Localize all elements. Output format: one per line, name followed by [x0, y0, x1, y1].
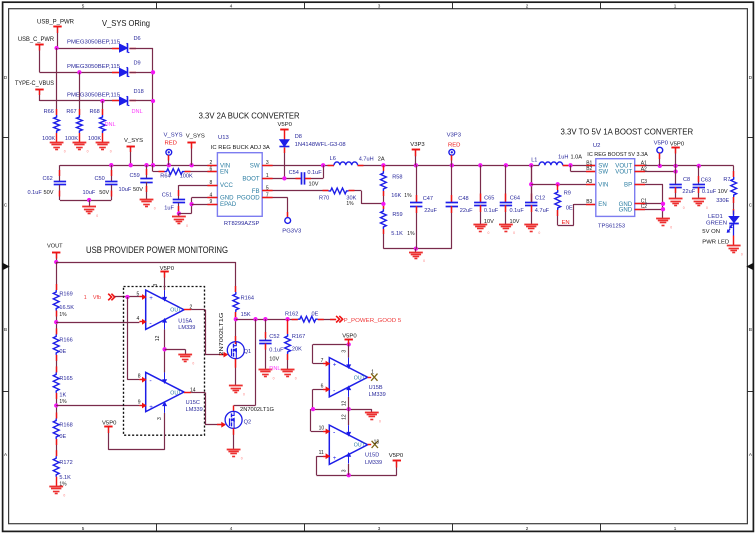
svg-text:0E: 0E: [312, 312, 319, 318]
svg-text:U13: U13: [218, 135, 230, 141]
svg-text:+: +: [149, 404, 153, 411]
svg-text:0: 0: [87, 150, 89, 154]
svg-text:R58: R58: [392, 175, 402, 181]
svg-text:6: 6: [210, 166, 213, 172]
svg-text:PMEG3050BEP,115: PMEG3050BEP,115: [67, 64, 120, 70]
svg-text:12: 12: [341, 401, 347, 407]
svg-text:10V: 10V: [484, 219, 494, 225]
svg-text:R167: R167: [292, 334, 305, 340]
svg-text:R165: R165: [59, 376, 72, 382]
svg-text:LM339: LM339: [186, 407, 203, 413]
svg-text:5: 5: [82, 526, 85, 531]
svg-text:V_SYS: V_SYS: [186, 134, 205, 140]
svg-text:R166: R166: [59, 337, 72, 343]
svg-text:4.7uF: 4.7uF: [535, 208, 550, 214]
svg-text:OUT: OUT: [170, 391, 182, 397]
svg-text:4: 4: [230, 526, 233, 531]
svg-text:DNL: DNL: [132, 109, 143, 115]
svg-text:22uF: 22uF: [424, 208, 437, 214]
svg-text:0.1uF: 0.1uF: [28, 190, 43, 196]
svg-text:0: 0: [741, 253, 743, 257]
svg-text:0: 0: [295, 377, 297, 381]
svg-text:C12: C12: [535, 196, 545, 202]
svg-text:V_SYS: V_SYS: [124, 138, 143, 144]
svg-text:2A: 2A: [378, 157, 385, 163]
svg-text:330E: 330E: [716, 198, 729, 204]
svg-text:+: +: [149, 295, 153, 302]
svg-text:R7: R7: [723, 177, 730, 183]
svg-text:50V: 50V: [99, 190, 109, 196]
svg-text:LED1: LED1: [708, 214, 723, 220]
svg-text:L6: L6: [330, 156, 336, 162]
svg-text:C52: C52: [269, 334, 279, 340]
svg-text:R9: R9: [564, 190, 571, 196]
svg-text:22uF: 22uF: [682, 189, 695, 195]
svg-text:10V: 10V: [269, 357, 279, 363]
svg-text:5.1K: 5.1K: [59, 475, 71, 481]
svg-text:IC REG BOOST 5V 3.3A: IC REG BOOST 5V 3.3A: [587, 152, 648, 158]
svg-text:50V: 50V: [133, 187, 143, 193]
svg-text:EN: EN: [220, 169, 228, 176]
svg-text:R169: R169: [59, 292, 72, 298]
svg-text:4: 4: [137, 316, 140, 322]
svg-text:C50: C50: [95, 176, 105, 182]
svg-text:2: 2: [526, 4, 529, 9]
svg-text:B3: B3: [586, 199, 592, 205]
svg-text:C65: C65: [484, 196, 494, 202]
svg-text:0: 0: [683, 206, 685, 210]
svg-text:12: 12: [155, 335, 161, 341]
svg-text:3: 3: [153, 284, 159, 287]
svg-text:SW: SW: [598, 169, 608, 176]
svg-text:C59: C59: [130, 173, 140, 179]
svg-text:1N4148WFL-G3-08: 1N4148WFL-G3-08: [295, 142, 346, 148]
svg-text:LM339: LM339: [178, 325, 195, 331]
svg-text:1: 1: [674, 526, 677, 531]
svg-text:DNL: DNL: [105, 122, 116, 128]
svg-text:0: 0: [186, 224, 188, 228]
svg-text:+: +: [333, 455, 337, 462]
svg-text:1: 1: [674, 4, 677, 9]
svg-text:1: 1: [84, 295, 87, 301]
svg-text:0: 0: [379, 419, 381, 423]
svg-text:LM339: LM339: [369, 392, 386, 398]
svg-text:V_SYS: V_SYS: [164, 133, 183, 139]
svg-text:RT8299AZSP: RT8299AZSP: [224, 221, 260, 227]
svg-text:BP: BP: [624, 182, 632, 189]
svg-text:5V ON: 5V ON: [702, 229, 720, 235]
svg-text:1%: 1%: [407, 231, 415, 237]
svg-text:V5P0: V5P0: [278, 122, 293, 128]
svg-text:1%: 1%: [346, 201, 354, 207]
svg-text:16K: 16K: [391, 193, 401, 199]
svg-text:C51: C51: [162, 193, 172, 199]
svg-text:0: 0: [273, 377, 275, 381]
svg-text:0: 0: [154, 207, 156, 211]
svg-text:10V: 10V: [718, 189, 728, 195]
svg-text:2: 2: [210, 160, 213, 166]
svg-text:R168: R168: [59, 422, 72, 428]
svg-text:D18: D18: [134, 89, 144, 95]
svg-text:1%: 1%: [59, 481, 67, 487]
svg-text:22uF: 22uF: [460, 208, 473, 214]
svg-text:B: B: [4, 327, 7, 332]
svg-text:6: 6: [321, 384, 324, 390]
svg-text:A3: A3: [586, 179, 592, 185]
svg-text:50V: 50V: [44, 190, 54, 196]
svg-text:100K: 100K: [180, 174, 193, 180]
svg-text:5: 5: [137, 292, 140, 298]
svg-text:USB_P_PWR: USB_P_PWR: [37, 19, 74, 26]
svg-text:PMEG3050BEP,115: PMEG3050BEP,115: [67, 40, 120, 46]
svg-text:EPAD: EPAD: [220, 201, 237, 208]
svg-text:V5P0: V5P0: [654, 140, 669, 146]
svg-text:10V: 10V: [309, 182, 319, 188]
svg-text:0: 0: [64, 150, 66, 154]
svg-text:13: 13: [374, 440, 380, 446]
svg-text:D8: D8: [295, 134, 302, 140]
svg-text:R68: R68: [90, 109, 100, 115]
svg-text:2N7002LT1G: 2N7002LT1G: [240, 407, 274, 413]
svg-text:C47: C47: [423, 196, 433, 202]
svg-text:0: 0: [670, 225, 672, 229]
svg-text:U15D: U15D: [365, 453, 379, 459]
svg-text:VOUT: VOUT: [615, 169, 632, 176]
svg-text:0: 0: [423, 259, 425, 263]
svg-text:3.3V TO 5V 1A BOOST CONVERTER: 3.3V TO 5V 1A BOOST CONVERTER: [561, 127, 694, 137]
svg-text:V5P0: V5P0: [102, 420, 117, 426]
svg-text:3.3V 2A BUCK CONVERTER: 3.3V 2A BUCK CONVERTER: [199, 111, 300, 121]
svg-text:EN: EN: [598, 201, 606, 208]
svg-text:16.5K: 16.5K: [59, 305, 74, 311]
svg-text:C63: C63: [701, 177, 711, 183]
svg-text:3: 3: [378, 4, 381, 9]
svg-text:0.1uF: 0.1uF: [510, 208, 525, 214]
svg-text:Vfb: Vfb: [93, 295, 101, 301]
svg-text:4: 4: [230, 4, 233, 9]
svg-text:TPS61253: TPS61253: [598, 224, 626, 230]
svg-text:3: 3: [341, 350, 347, 353]
svg-text:15K: 15K: [241, 312, 251, 318]
svg-text:V_SYS ORing: V_SYS ORing: [102, 18, 150, 28]
svg-text:C54: C54: [289, 170, 299, 176]
svg-text:IC REG BUCK ADJ 3A: IC REG BUCK ADJ 3A: [211, 145, 270, 151]
svg-text:GND: GND: [619, 206, 633, 213]
svg-text:2N7002LT1G: 2N7002LT1G: [219, 313, 225, 356]
svg-text:VIN: VIN: [598, 182, 608, 189]
svg-text:USB_C_PWR: USB_C_PWR: [18, 36, 54, 43]
svg-text:GREEN: GREEN: [706, 220, 727, 226]
svg-text:LM339: LM339: [365, 460, 382, 466]
svg-text:1uF: 1uF: [164, 206, 174, 212]
svg-text:OUT: OUT: [170, 308, 182, 314]
svg-text:1.0A: 1.0A: [571, 155, 583, 161]
svg-text:0: 0: [96, 214, 98, 218]
svg-text:0.1uF: 0.1uF: [484, 208, 499, 214]
svg-text:U15A: U15A: [178, 319, 192, 325]
svg-text:0.1uF: 0.1uF: [269, 347, 284, 353]
svg-text:0E: 0E: [59, 349, 66, 355]
svg-text:SW: SW: [250, 162, 260, 169]
svg-text:R67: R67: [66, 109, 76, 115]
svg-text:USB PROVIDER POWER MONITORING: USB PROVIDER POWER MONITORING: [86, 245, 228, 255]
svg-text:EN: EN: [562, 220, 570, 226]
svg-text:1%: 1%: [59, 312, 67, 318]
svg-text:R64: R64: [160, 174, 170, 180]
svg-text:100K: 100K: [65, 136, 78, 142]
svg-text:VOUT: VOUT: [47, 243, 63, 249]
svg-text:D9: D9: [134, 60, 141, 66]
svg-text:PWR LED: PWR LED: [702, 240, 729, 246]
svg-text:DNL: DNL: [269, 366, 280, 372]
svg-text:100K: 100K: [42, 136, 55, 142]
svg-text:20K: 20K: [292, 346, 302, 352]
svg-text:C8: C8: [683, 177, 690, 183]
svg-text:10: 10: [319, 426, 325, 432]
svg-text:Q1: Q1: [244, 349, 251, 355]
svg-text:R172: R172: [59, 460, 72, 466]
svg-text:0: 0: [706, 206, 708, 210]
svg-text:PMEG3050BEP,115: PMEG3050BEP,115: [67, 93, 120, 99]
svg-text:B2: B2: [586, 166, 592, 172]
svg-text:V5P0: V5P0: [342, 334, 357, 340]
svg-text:R70: R70: [319, 195, 329, 201]
svg-text:P_POWER_GOOD 5: P_POWER_GOOD 5: [344, 318, 402, 324]
svg-text:V3P3: V3P3: [447, 133, 462, 139]
svg-text:5.1K: 5.1K: [391, 231, 403, 237]
svg-text:V5P0: V5P0: [389, 453, 404, 459]
svg-text:9: 9: [138, 399, 141, 405]
svg-text:B: B: [749, 327, 752, 332]
svg-text:8: 8: [138, 373, 141, 379]
svg-text:10V: 10V: [510, 219, 520, 225]
svg-text:1K: 1K: [59, 393, 66, 399]
svg-text:100K: 100K: [88, 136, 101, 142]
svg-text:0: 0: [192, 362, 194, 366]
svg-text:0: 0: [63, 494, 65, 498]
svg-text:1%: 1%: [59, 399, 67, 405]
svg-text:U15C: U15C: [186, 400, 200, 406]
svg-text:3: 3: [157, 417, 163, 420]
svg-text:C62: C62: [43, 176, 53, 182]
svg-text:Q2: Q2: [244, 420, 251, 426]
svg-text:RED: RED: [165, 140, 177, 146]
svg-text:11: 11: [319, 450, 324, 456]
svg-text:TYPE-C_VBUS: TYPE-C_VBUS: [15, 80, 54, 87]
svg-text:U2: U2: [593, 143, 601, 149]
svg-text:12: 12: [341, 414, 347, 420]
svg-text:C64: C64: [510, 196, 520, 202]
svg-text:3: 3: [378, 526, 381, 531]
svg-text:0: 0: [241, 456, 243, 460]
svg-text:0: 0: [513, 231, 515, 235]
svg-text:0E: 0E: [59, 434, 66, 440]
svg-text:C48: C48: [458, 196, 468, 202]
svg-text:1%: 1%: [404, 193, 412, 199]
svg-text:+: +: [333, 362, 337, 369]
svg-text:1: 1: [371, 370, 374, 376]
svg-text:V3P3: V3P3: [410, 142, 425, 148]
svg-text:PGOOD: PGOOD: [237, 195, 260, 202]
svg-text:R162: R162: [285, 312, 298, 318]
svg-text:4.7uH: 4.7uH: [359, 157, 374, 163]
svg-text:RED: RED: [448, 142, 460, 148]
svg-text:1uH: 1uH: [558, 155, 568, 161]
svg-text:0.1uF: 0.1uF: [307, 170, 322, 176]
svg-text:10uF: 10uF: [83, 190, 96, 196]
svg-text:U15B: U15B: [369, 385, 383, 391]
svg-text:2: 2: [526, 526, 529, 531]
svg-text:D6: D6: [134, 36, 141, 42]
svg-text:0: 0: [538, 231, 540, 235]
svg-text:R59: R59: [392, 212, 402, 218]
svg-text:5: 5: [82, 4, 85, 9]
svg-text:0: 0: [110, 150, 112, 154]
svg-text:0: 0: [488, 231, 490, 235]
svg-text:10uF: 10uF: [119, 187, 132, 193]
svg-text:OUT: OUT: [354, 443, 366, 449]
svg-text:BOOT: BOOT: [242, 175, 260, 182]
svg-text:OUT: OUT: [354, 375, 366, 381]
svg-text:R66: R66: [44, 109, 54, 115]
svg-text:VCC: VCC: [220, 182, 233, 189]
svg-text:0.1uF: 0.1uF: [702, 189, 717, 195]
svg-text:0: 0: [243, 393, 245, 397]
svg-text:0E: 0E: [566, 206, 573, 212]
svg-text:R164: R164: [241, 295, 254, 301]
svg-text:PG3V3: PG3V3: [282, 229, 302, 235]
svg-text:L1: L1: [531, 157, 537, 163]
svg-text:3: 3: [341, 469, 347, 472]
